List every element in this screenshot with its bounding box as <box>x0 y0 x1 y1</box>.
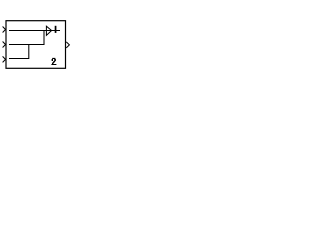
input port chevron 1 <box>3 27 6 33</box>
gain triangle <box>46 26 51 35</box>
wire: input 1 through triangle to stub end <box>9 30 60 32</box>
output port chevron <box>66 42 69 48</box>
wire: input 3 horizontal then riser up to middle wire <box>9 45 29 59</box>
subsystem block U1 outline <box>6 21 66 69</box>
input port chevron 3 <box>3 56 6 62</box>
block bar <box>55 26 57 33</box>
label 2 <box>51 58 56 65</box>
input port chevron 2 <box>3 42 6 48</box>
wire: input 2 horizontal then riser up to top wire <box>9 31 44 45</box>
